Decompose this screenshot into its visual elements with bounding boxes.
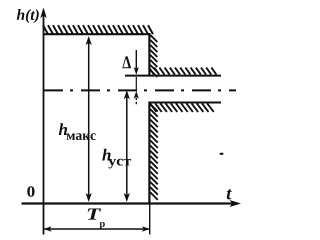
label h_ust (h_уст) xyxy=(102,149,110,161)
T_p right extension line below axis xyxy=(149,204,151,235)
centerline h_ust level (dash-dot) xyxy=(44,89,236,91)
label h_max (h_макс) xyxy=(59,123,67,135)
step edge vertical line at T_p top xyxy=(148,33,150,76)
label 0 origin xyxy=(27,186,34,197)
ink speck artifact xyxy=(220,153,224,155)
lower boundary vertical line at T_p xyxy=(148,102,150,204)
T_p dimension line with outward arrows xyxy=(44,226,150,231)
hatching below lower tolerance line xyxy=(150,103,214,112)
hatching right of lower boundary vertical xyxy=(150,104,158,200)
label Delta xyxy=(123,56,131,68)
h_ust measuring arrow (double headed vertical) xyxy=(124,90,130,202)
upper bound line h_max (top boundary) xyxy=(44,33,151,35)
y-axis h(t) vertical line with top arrow xyxy=(40,8,46,235)
label t axis xyxy=(227,189,232,199)
h_max measuring arrow (double headed vertical) xyxy=(86,36,92,202)
label h(t) axis title xyxy=(17,9,39,23)
label T_p (T_р) xyxy=(88,209,101,220)
hatching above upper tolerance line xyxy=(149,68,216,75)
upper tolerance line (h_ust + Delta) with left tick xyxy=(125,75,221,77)
hatching above upper bound line xyxy=(43,25,153,34)
hatching right of step edge xyxy=(150,35,157,77)
lower tolerance line (h_ust - Delta) xyxy=(149,102,222,104)
delta dimension upper arrow (down) xyxy=(134,50,139,90)
delta dimension lower arrow (up) with dashed tail xyxy=(134,91,139,105)
t-axis horizontal line with right arrow xyxy=(22,200,242,207)
